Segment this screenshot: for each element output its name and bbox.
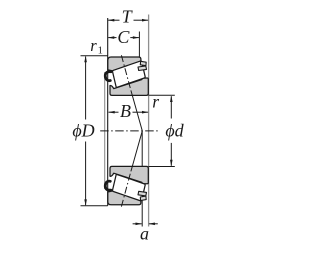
cage bar large end upper <box>140 61 146 65</box>
svg-text:1: 1 <box>98 45 103 56</box>
pressure line solid bottom <box>131 131 142 172</box>
extension line cup back face / B left <box>107 18 109 206</box>
cage rim projection line <box>104 72 106 189</box>
dimension phi d <box>170 96 172 166</box>
roller axis dash-dot bottom <box>121 171 130 206</box>
cone (inner ring) <box>110 78 148 95</box>
extension line outer surface top r1 <box>81 55 108 57</box>
dimension a <box>133 223 158 225</box>
centerline (bearing axis) <box>100 130 158 132</box>
extension line cup front face C right <box>138 32 140 58</box>
dimension C <box>108 37 139 39</box>
extension line effective center / a left <box>141 131 143 227</box>
roller <box>113 61 146 87</box>
svg-text:ϕD: ϕD <box>72 120 94 140</box>
dimension T <box>108 19 148 21</box>
roller axis dash-dot top <box>121 55 130 90</box>
bearing top half <box>105 57 148 95</box>
pressure line solid top <box>131 90 142 130</box>
extension line outer surface bottom <box>81 205 108 207</box>
svg-text:B: B <box>120 101 131 121</box>
svg-text:r: r <box>90 36 97 55</box>
cup (outer ring) <box>108 57 141 71</box>
extension line bore top phi-d <box>149 94 175 96</box>
svg-text:ϕd: ϕd <box>165 120 184 140</box>
cage bar large end lower <box>138 66 147 71</box>
svg-text:r: r <box>152 91 159 111</box>
svg-text:C: C <box>117 27 130 47</box>
extension line cone back face T right / a right <box>148 15 150 227</box>
dimension B <box>109 111 149 113</box>
extension line bore bottom phi-d <box>149 166 175 168</box>
bearing bottom half (mirror) <box>105 166 148 204</box>
svg-text:a: a <box>140 223 149 243</box>
dimension phi D <box>85 57 87 206</box>
cage hook small end <box>105 72 111 81</box>
